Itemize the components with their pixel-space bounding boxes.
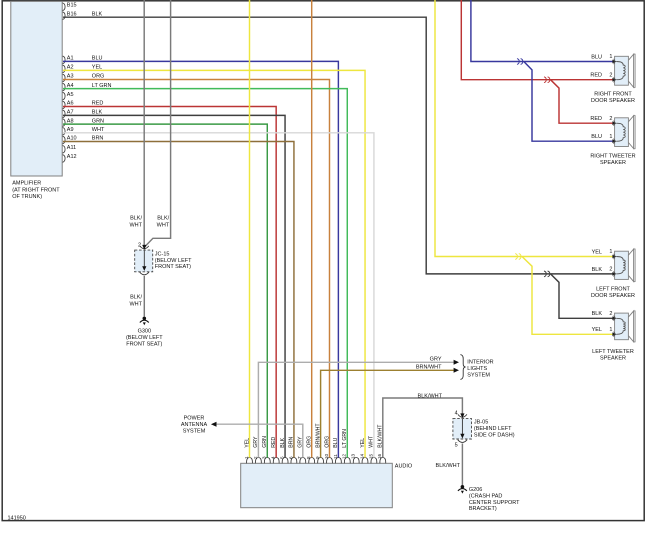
wire LT GRN from amp A4 to audio pin 12 — [63, 89, 347, 458]
svg-text:2: 2 — [609, 116, 612, 122]
wire BLK/WHT from top to JC-15 (right) — [145, 0, 171, 247]
svg-text:BLU: BLU — [591, 134, 602, 140]
arrow GRY — [454, 360, 459, 365]
splice on BLK wire — [544, 271, 546, 277]
svg-text:A5: A5 — [67, 92, 74, 98]
svg-text:BLK/WHT: BLK/WHT — [436, 463, 461, 469]
svg-text:9: 9 — [315, 456, 320, 459]
speaker left front door — [591, 249, 635, 299]
wire BLK/WHT from JC-15 to G300 — [143, 276, 145, 317]
audio pin 10 — [324, 436, 333, 463]
splice on RED wire — [544, 77, 546, 83]
audio pin 3 — [262, 436, 271, 463]
pin A2 — [63, 65, 103, 73]
pin A1 — [63, 56, 103, 64]
pin B15 — [63, 3, 77, 11]
svg-text:1: 1 — [609, 249, 612, 255]
pin A11 — [63, 145, 77, 153]
svg-text:(BELOW LEFT: (BELOW LEFT — [155, 258, 192, 264]
svg-text:2: 2 — [609, 311, 612, 317]
wire GRY from audio pin 2 to interior lights system — [258, 362, 453, 457]
svg-text:RIGHT TWEETER: RIGHT TWEETER — [590, 153, 635, 159]
svg-text:POWER: POWER — [184, 415, 205, 421]
pin A10 — [63, 136, 104, 144]
splice on YEL wire — [515, 254, 517, 260]
svg-text:RIGHT FRONT: RIGHT FRONT — [594, 92, 632, 98]
svg-text:5: 5 — [280, 456, 285, 459]
svg-text:BRACKET): BRACKET) — [469, 506, 497, 512]
audio pin 12 — [342, 429, 351, 463]
ground G206 — [458, 485, 520, 512]
wire BLK branch to left tweeter speaker — [551, 274, 614, 318]
wire BLK from amp A7 to audio pin 5 — [63, 115, 285, 457]
svg-text:LEFT FRONT: LEFT FRONT — [596, 287, 630, 293]
audio pin 14 — [359, 438, 368, 464]
svg-text:DOOR SPEAKER: DOOR SPEAKER — [591, 98, 635, 104]
pin A12 — [63, 154, 77, 162]
wire BLU branch to right tweeter speaker — [524, 62, 613, 142]
svg-text:SPEAKER: SPEAKER — [600, 355, 626, 361]
svg-text:A11: A11 — [67, 145, 76, 151]
svg-text:BLK/: BLK/ — [130, 215, 142, 221]
pin A5 — [63, 92, 74, 100]
svg-text:RED: RED — [590, 73, 602, 79]
svg-text:G300: G300 — [138, 329, 151, 335]
svg-text:FRONT SEAT): FRONT SEAT) — [155, 264, 191, 270]
svg-text:OF TRUNK): OF TRUNK) — [12, 194, 42, 200]
svg-text:SPEAKER: SPEAKER — [600, 160, 626, 166]
svg-text:B15: B15 — [67, 3, 77, 9]
svg-text:3: 3 — [262, 456, 267, 459]
wire BLK/WHT from JB-05 to G206 — [461, 444, 463, 486]
interior lights system — [460, 355, 493, 380]
audio pin 1 — [244, 438, 253, 464]
audio pin 16 — [377, 424, 386, 463]
wire BLK/WHT from top to JC-15 (left) — [143, 0, 145, 247]
svg-text:SYSTEM: SYSTEM — [467, 373, 490, 379]
svg-text:(BELOW LEFT: (BELOW LEFT — [126, 335, 163, 341]
splice on BLU wire — [517, 59, 519, 65]
svg-text:JB-05: JB-05 — [474, 419, 488, 425]
svg-text:141950: 141950 — [8, 516, 26, 522]
wire GRY from audio pin 7 to power antenna system — [216, 424, 302, 457]
svg-text:(AT RIGHT FRONT: (AT RIGHT FRONT — [12, 187, 60, 193]
svg-text:AMPLIFIER: AMPLIFIER — [12, 180, 41, 186]
svg-text:LIGHTS: LIGHTS — [467, 366, 487, 372]
wire YEL from top to audio pin 1 — [249, 0, 251, 458]
wire BLU from amp A1 to audio pin 11 — [63, 61, 338, 457]
svg-text:15: 15 — [368, 453, 373, 459]
pin A6 — [63, 101, 104, 109]
arrow power antenna — [211, 422, 217, 427]
svg-text:4: 4 — [455, 411, 458, 417]
pin A4 — [63, 83, 112, 91]
svg-text:CENTER SUPPORT: CENTER SUPPORT — [469, 500, 520, 506]
svg-text:14: 14 — [359, 453, 364, 459]
svg-text:BLK: BLK — [592, 267, 603, 273]
svg-text:13: 13 — [351, 453, 356, 459]
svg-text:BLK/: BLK/ — [130, 295, 142, 301]
svg-text:2: 2 — [609, 72, 612, 78]
svg-text:WHT: WHT — [129, 302, 142, 308]
wire BLU from top to right front door speaker — [471, 0, 613, 62]
label BLK/WHT right — [157, 215, 170, 228]
wire RED from top to right front door speaker — [461, 0, 613, 80]
svg-text:LEFT TWEETER: LEFT TWEETER — [592, 349, 634, 355]
svg-text:G206: G206 — [469, 487, 482, 493]
wire WHT from amp A9 to audio pin 15 — [63, 133, 374, 458]
connector JB-05 — [453, 413, 515, 442]
svg-text:(CRASH PAD: (CRASH PAD — [469, 494, 503, 500]
svg-text:SYSTEM: SYSTEM — [183, 428, 206, 434]
svg-text:4: 4 — [271, 456, 276, 459]
wire GRN from amp A8 to audio pin 3 — [63, 124, 267, 458]
svg-text:SIDE OF DASH): SIDE OF DASH) — [474, 432, 515, 438]
speaker right front door — [590, 54, 635, 104]
svg-text:BLK/: BLK/ — [157, 215, 169, 221]
audio pin 7 — [297, 436, 306, 463]
label BLK/WHT left — [129, 215, 142, 228]
svg-text:ANTENNA: ANTENNA — [181, 422, 208, 428]
svg-text:YEL: YEL — [592, 327, 602, 333]
pin A3 — [63, 74, 105, 82]
arrow BRN/WHT — [454, 368, 459, 373]
wire ORG from top to audio pin 8 — [311, 0, 313, 458]
svg-text:6: 6 — [288, 456, 293, 459]
speaker left tweeter — [592, 311, 636, 362]
audio pin 13 — [351, 453, 360, 463]
svg-text:AUDIO: AUDIO — [395, 464, 413, 470]
svg-text:1: 1 — [609, 54, 612, 60]
audio pin 4 — [271, 436, 280, 463]
pin A7 — [63, 110, 103, 118]
svg-text:2: 2 — [609, 267, 612, 273]
svg-text:YEL: YEL — [592, 249, 602, 255]
svg-text:BLU: BLU — [591, 54, 602, 60]
svg-text:7: 7 — [297, 456, 302, 459]
ground G300 — [126, 317, 163, 348]
pin B16 — [63, 11, 103, 19]
audio pin 8 — [306, 436, 315, 463]
svg-text:DOOR SPEAKER: DOOR SPEAKER — [591, 293, 635, 299]
audio pin 9 — [315, 423, 324, 464]
svg-text:5: 5 — [455, 443, 458, 449]
svg-text:16: 16 — [377, 453, 382, 459]
audio pin 5 — [280, 437, 289, 463]
svg-text:JC-15: JC-15 — [155, 251, 170, 257]
svg-text:BLK: BLK — [592, 311, 603, 317]
label BLK/WHT to G300 — [129, 295, 142, 308]
svg-text:12: 12 — [342, 453, 347, 459]
svg-text:(BEHIND LEFT: (BEHIND LEFT — [474, 426, 512, 432]
svg-text:WHT: WHT — [129, 222, 142, 228]
svg-text:GRY: GRY — [430, 357, 442, 363]
wire RED from amp A6 to audio pin 4 — [63, 107, 276, 458]
svg-text:BLK/WHT: BLK/WHT — [418, 393, 443, 399]
svg-text:1: 1 — [244, 456, 249, 459]
wire YEL from top to left front door speaker — [435, 0, 613, 257]
pin A8 — [63, 118, 104, 126]
svg-text:BRN/WHT: BRN/WHT — [416, 365, 442, 371]
svg-text:2: 2 — [253, 456, 258, 459]
svg-text:10: 10 — [324, 453, 329, 459]
audio pin 6 — [288, 436, 297, 463]
svg-text:1: 1 — [609, 327, 612, 333]
audio unit — [241, 463, 413, 507]
wire YEL branch to left tweeter speaker — [522, 257, 613, 335]
wire BLK from amp B16 to left front door speaker — [63, 17, 613, 274]
svg-text:11: 11 — [333, 454, 338, 459]
wire ORG from amp A3 to audio pin 10 — [63, 80, 329, 458]
svg-text:8: 8 — [306, 456, 311, 459]
pin A9 — [63, 127, 105, 135]
wire RED branch to right tweeter speaker — [551, 80, 614, 124]
audio pin 15 — [368, 435, 377, 463]
svg-text:RED: RED — [590, 116, 602, 122]
wire BRN from amp A10 to audio pin 6 — [63, 142, 294, 458]
svg-text:A12: A12 — [67, 154, 77, 160]
svg-text:INTERIOR: INTERIOR — [467, 360, 493, 366]
power antenna system — [181, 415, 208, 434]
svg-text:1: 1 — [609, 134, 612, 140]
svg-text:2: 2 — [138, 243, 141, 249]
wire BRN/WHT from audio pin 9 to interior lights system — [321, 370, 454, 457]
audio pin 11 — [333, 437, 342, 463]
connector JC-15 — [135, 245, 192, 275]
speaker right tweeter — [590, 116, 635, 166]
wire YEL from amp A2 to audio pin 14 — [63, 70, 365, 457]
svg-text:FRONT SEAT): FRONT SEAT) — [126, 341, 162, 347]
wire BLK/WHT from audio pin 16 to JB-05 — [383, 398, 463, 458]
svg-text:WHT: WHT — [157, 222, 170, 228]
amplifier (at right front of trunk) — [11, 1, 62, 200]
audio pin 2 — [253, 436, 262, 463]
